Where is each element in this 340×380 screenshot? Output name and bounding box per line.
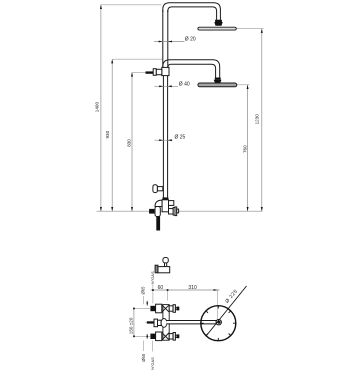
svg-text:1230: 1230: [255, 114, 260, 125]
svg-text:Ø 25: Ø 25: [175, 134, 186, 140]
svg-text:1400: 1400: [95, 102, 100, 113]
svg-text:½”GAS: ½”GAS: [150, 271, 155, 284]
svg-text:930: 930: [105, 130, 110, 138]
svg-text:½”GAS: ½”GAS: [150, 357, 155, 370]
svg-text:Ø65: Ø65: [141, 286, 146, 295]
svg-text:830: 830: [127, 139, 132, 147]
svg-text:60: 60: [158, 285, 164, 291]
svg-text:Ø 20: Ø 20: [185, 37, 196, 43]
svg-text:760: 760: [242, 145, 247, 153]
svg-text:Ø65: Ø65: [141, 353, 146, 362]
svg-text:310: 310: [188, 285, 197, 291]
svg-text:150 ±20: 150 ±20: [129, 317, 134, 334]
svg-text:Ø 40: Ø 40: [179, 82, 190, 88]
